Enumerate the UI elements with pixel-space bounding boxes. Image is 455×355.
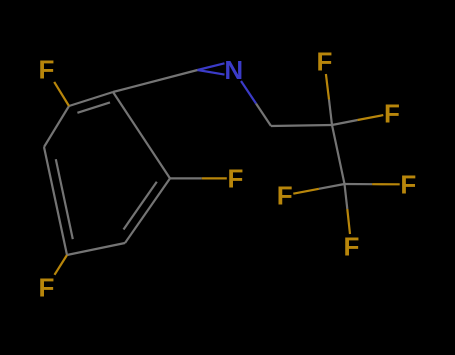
bond N-C2 (gray half) xyxy=(256,104,271,127)
svg-text:F: F xyxy=(343,232,359,262)
bond C4-Fg (orange half) xyxy=(372,183,400,185)
bond ring-Fc (orange) xyxy=(55,255,68,275)
svg-text:F: F xyxy=(277,180,293,210)
bond C4-Ff (gray half) xyxy=(319,184,345,189)
ring edge V6-V5 xyxy=(44,106,69,147)
bond C2-C3 xyxy=(271,125,332,126)
bond C3-Fe (orange half) xyxy=(358,115,384,120)
ring edge V3-V2 xyxy=(125,178,170,243)
bond C4-Ff (orange half) xyxy=(293,189,319,194)
svg-text:F: F xyxy=(39,272,55,302)
ring edge V5-V4 xyxy=(44,147,67,255)
ring edge V2-A xyxy=(113,92,170,178)
bond ring A to C1 xyxy=(113,70,198,92)
bond C4-Fh (orange half) xyxy=(347,209,350,234)
C1=N double bond upper line xyxy=(198,63,225,70)
bond ring-Fb (gray half) xyxy=(170,177,202,179)
svg-text:F: F xyxy=(400,169,416,199)
aromatic inner line A-V6 xyxy=(77,102,110,112)
aromatic inner line V3-V2 xyxy=(124,182,157,230)
bond C4-Fh (gray half) xyxy=(345,184,348,209)
C1=N double bond lower line xyxy=(198,70,225,75)
bond C3-Fe (gray half) xyxy=(332,120,358,125)
bond C3-Fd (gray half) xyxy=(329,100,332,126)
ring edge V4-V3 xyxy=(67,243,125,255)
bond C3-Fd (orange half) xyxy=(326,74,329,100)
bond C3-C4 xyxy=(332,125,345,184)
bond N-C2 (blue half) xyxy=(241,81,256,104)
svg-text:F: F xyxy=(39,54,55,84)
svg-text:N: N xyxy=(224,55,243,85)
bond C4-Fg (gray half) xyxy=(345,183,373,185)
ring edge A-V6 xyxy=(69,92,113,106)
aromatic inner line V5-V4 xyxy=(56,159,73,239)
bond ring-Fa (orange) xyxy=(54,82,69,106)
bond ring-Fb (orange half) xyxy=(202,177,227,179)
svg-text:F: F xyxy=(316,46,332,76)
svg-text:F: F xyxy=(227,163,243,193)
svg-text:F: F xyxy=(384,98,400,128)
